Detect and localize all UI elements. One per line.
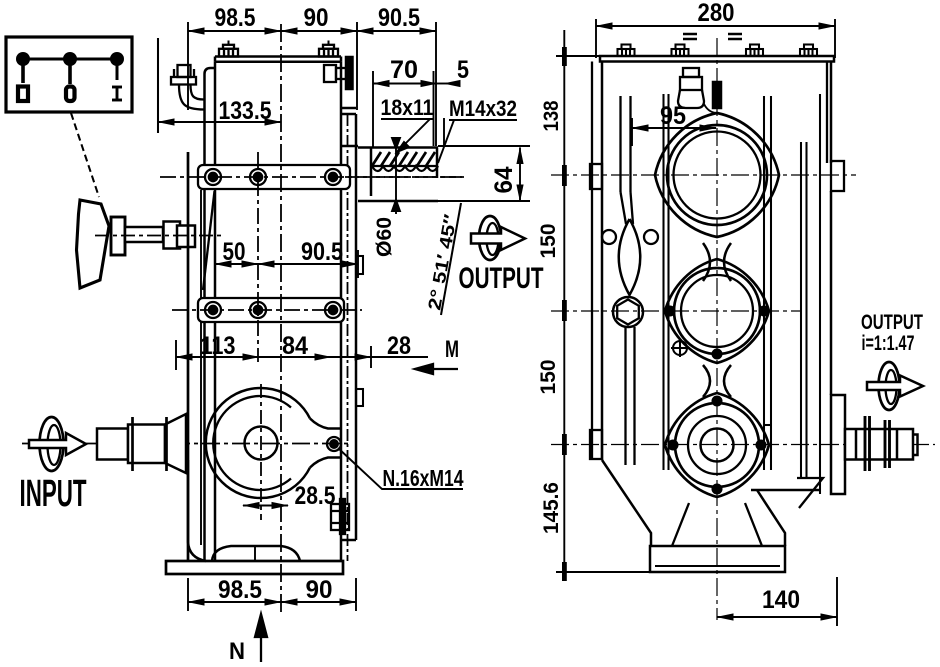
input bearing boss bbox=[206, 388, 341, 498]
hourglass between top and middle bbox=[703, 243, 731, 281]
svg-text:OUTPUT: OUTPUT bbox=[861, 311, 923, 334]
body right wall bbox=[340, 62, 343, 561]
lever shaft centerline bbox=[95, 235, 222, 237]
shift fork oval bbox=[619, 219, 641, 295]
svg-text:138: 138 bbox=[540, 100, 563, 131]
svg-text:90.5: 90.5 bbox=[301, 238, 343, 266]
left flange tab upper bbox=[590, 164, 602, 189]
right flange tab bbox=[831, 161, 844, 191]
svg-text:N: N bbox=[229, 638, 245, 662]
svg-text:50: 50 bbox=[223, 238, 246, 266]
lever inner block bbox=[177, 226, 195, 248]
pedestal inner slopes bbox=[672, 503, 762, 546]
left flange tab lower bbox=[590, 430, 602, 459]
lever hub block bbox=[111, 217, 125, 255]
flange centerline bbox=[345, 176, 462, 178]
thread scallops bbox=[371, 166, 438, 171]
svg-text:145.6: 145.6 bbox=[540, 482, 563, 534]
svg-text:OUTPUT: OUTPUT bbox=[459, 262, 544, 295]
top cover bbox=[215, 55, 341, 58]
svg-text:64: 64 bbox=[490, 166, 518, 193]
dim 28.5 bbox=[243, 505, 288, 507]
top bearing circles bbox=[667, 125, 767, 225]
bottom bearing circles bbox=[675, 403, 759, 487]
middle small bolt bbox=[671, 339, 689, 357]
internal shift rod diagonal bbox=[203, 191, 215, 290]
svg-text:90.5: 90.5 bbox=[378, 4, 420, 32]
hex plug bbox=[613, 297, 643, 327]
left wall bbox=[601, 62, 604, 461]
left view housing bbox=[158, 38, 363, 561]
lever knob bbox=[77, 200, 110, 288]
top bearing quatrefoil flange bbox=[655, 113, 779, 237]
right support bracket bbox=[797, 478, 823, 508]
dim 70 and 5 bbox=[373, 71, 458, 148]
dim 98.5 90 90.5 top bbox=[187, 22, 189, 110]
OUTPUT symbol right bbox=[867, 362, 923, 410]
dim 140 bbox=[717, 577, 837, 626]
N.16xM14 leader bbox=[338, 448, 463, 489]
angle leader 2 51 45 bbox=[441, 203, 461, 315]
strip centerline lower bbox=[172, 309, 362, 311]
dim 64 bbox=[519, 148, 521, 202]
svg-text:i=1:1.47: i=1:1.47 bbox=[862, 332, 915, 355]
dim 95 bbox=[632, 118, 716, 146]
svg-text:84: 84 bbox=[282, 332, 308, 360]
svg-text:M: M bbox=[445, 336, 459, 363]
output boss bbox=[831, 395, 845, 494]
breather cap bbox=[678, 68, 716, 113]
pedestal left slope bbox=[602, 460, 651, 546]
dim 113 84 28 bbox=[176, 340, 428, 370]
svg-text:Ø60: Ø60 bbox=[373, 217, 396, 257]
leader from inset to lever bbox=[71, 113, 99, 197]
label II bbox=[18, 87, 28, 102]
svg-text:5: 5 bbox=[457, 56, 469, 84]
OUTPUT shaft symbol left view bbox=[471, 216, 525, 260]
left bracket line bbox=[157, 38, 159, 133]
equality marks bbox=[683, 34, 742, 39]
svg-text:98.5: 98.5 bbox=[215, 4, 256, 32]
middle bearing circles bbox=[674, 268, 760, 354]
svg-text:90: 90 bbox=[304, 4, 329, 32]
main vertical centerline bbox=[280, 24, 282, 612]
svg-text:133.5: 133.5 bbox=[219, 97, 272, 125]
flange hatch bbox=[372, 152, 435, 166]
base foot bbox=[166, 460, 343, 574]
output shaft right bbox=[845, 416, 918, 471]
input bore centerline vertical bbox=[260, 384, 262, 520]
svg-text:98.5: 98.5 bbox=[218, 576, 262, 604]
svg-text:280: 280 bbox=[698, 0, 735, 27]
top plate bbox=[600, 56, 834, 62]
svg-text:150: 150 bbox=[537, 360, 560, 395]
shift pattern stems bbox=[21, 59, 25, 83]
svg-text:28.5: 28.5 bbox=[295, 482, 336, 510]
pedestal right slope bbox=[751, 489, 820, 492]
dim 133.5 bbox=[158, 121, 281, 123]
svg-text:70: 70 bbox=[390, 56, 418, 84]
right wall bbox=[830, 62, 833, 164]
bottom flange bolts bbox=[669, 397, 766, 494]
label 0 bbox=[66, 87, 75, 102]
breather pipe elbow bbox=[171, 65, 204, 110]
dim 50 / 90.5 bbox=[214, 248, 216, 292]
base plate bbox=[650, 546, 785, 572]
bottom bearing flange bbox=[665, 393, 769, 497]
svg-text:M14x32: M14x32 bbox=[449, 96, 517, 121]
output flange section bbox=[341, 146, 530, 201]
top right section bar bbox=[346, 57, 353, 89]
svg-text:90: 90 bbox=[306, 576, 333, 604]
N.16xM14 bolt bbox=[327, 437, 341, 451]
label I bbox=[112, 87, 122, 100]
cover bolt left bbox=[219, 41, 238, 57]
INPUT shaft symbol bbox=[29, 417, 86, 471]
svg-text:INPUT: INPUT bbox=[20, 473, 87, 515]
lever shaft bbox=[125, 227, 163, 242]
top right bolt bbox=[324, 65, 346, 82]
hourglass between middle and bottom bbox=[703, 365, 731, 397]
input shaft centerline bbox=[22, 443, 352, 445]
shift rail bbox=[621, 96, 634, 224]
bell flange plate bbox=[187, 152, 190, 560]
middle bearing flange bbox=[665, 259, 769, 363]
svg-text:140: 140 bbox=[762, 586, 800, 614]
dim 280 bbox=[596, 19, 835, 58]
lower bolt strip bbox=[198, 298, 344, 322]
rail lower bbox=[626, 327, 635, 465]
svg-text:28: 28 bbox=[387, 332, 411, 360]
view arrow N bbox=[255, 614, 267, 662]
right view centerlines bbox=[551, 38, 935, 620]
middle flange bolts bbox=[666, 307, 769, 359]
fork side pins bbox=[602, 230, 616, 244]
dia60 dimension bbox=[392, 138, 400, 214]
svg-text:18x11: 18x11 bbox=[381, 95, 434, 120]
input shaft bbox=[97, 414, 186, 473]
svg-text:95: 95 bbox=[660, 102, 686, 130]
right flange tabs bbox=[356, 256, 363, 274]
dim 98.5 90 bottom bbox=[188, 578, 356, 611]
vertical chain dim 138 150 150 145.6 bbox=[556, 30, 650, 581]
svg-text:N.16xM14: N.16xM14 bbox=[383, 465, 464, 491]
left view dimensions bbox=[188, 22, 436, 146]
shift pattern inset box bbox=[6, 37, 132, 112]
right view housing bbox=[590, 45, 845, 573]
drain plug right bbox=[331, 499, 349, 534]
right flange strip bbox=[347, 114, 349, 561]
upper bolt strip bbox=[198, 165, 350, 189]
front plate bbox=[205, 68, 216, 561]
oil level rod bbox=[713, 82, 721, 108]
shift pattern gate line bbox=[23, 58, 117, 61]
cover bolt right bbox=[319, 41, 338, 57]
strip centerline upper bbox=[160, 176, 465, 178]
vertical centerline x258 bbox=[257, 152, 259, 362]
svg-text:150: 150 bbox=[537, 224, 560, 259]
top bolts bbox=[618, 45, 818, 57]
lever boss block bbox=[164, 222, 181, 249]
shift pattern position dots bbox=[16, 52, 124, 66]
svg-text:113: 113 bbox=[201, 332, 236, 360]
internal vertical ribs bbox=[664, 94, 821, 494]
gear shift lever group bbox=[77, 200, 223, 288]
